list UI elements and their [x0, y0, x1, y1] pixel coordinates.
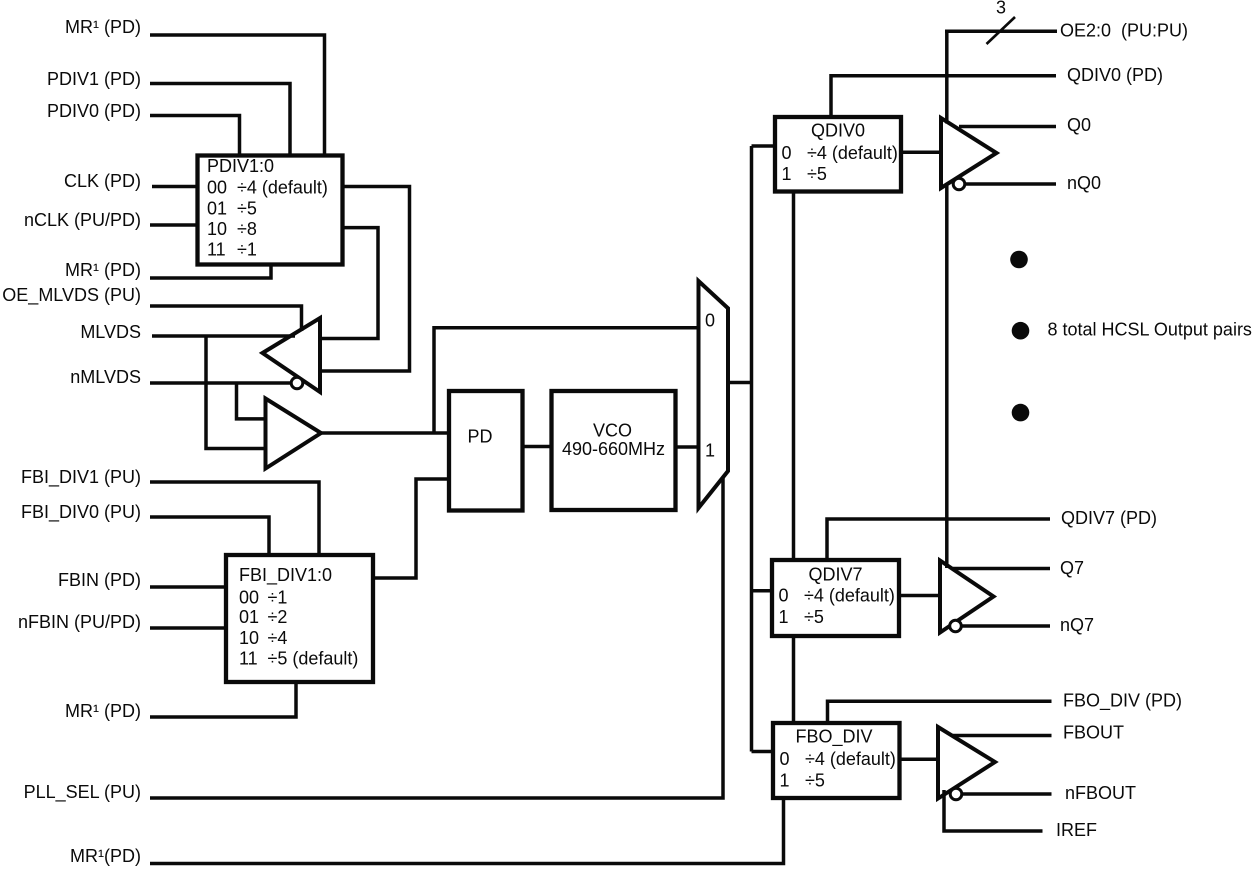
svg-text:QDIV7 (PD): QDIV7 (PD): [1061, 508, 1157, 528]
wire PLL_SEL to mux select: [150, 477, 723, 798]
svg-text:÷5: ÷5: [805, 771, 825, 791]
svg-text:11: 11: [239, 649, 258, 669]
wire QDIV7 control from QDIV7 (PD) pin: [827, 519, 1050, 560]
wire MLVDS branch down to receiver lower input: [206, 336, 267, 449]
bus OE2:0 enable line: [945, 29, 1057, 33]
ellipsis dot 2: [1012, 322, 1030, 340]
svg-text:01: 01: [239, 607, 259, 627]
svg-text:÷5: ÷5: [237, 199, 257, 219]
wire MR1 top to PDIV1:0 box: [150, 35, 325, 157]
svg-text:PDIV1 (PD): PDIV1 (PD): [47, 69, 141, 89]
wire nFBOUT output: [962, 792, 1052, 796]
block VCO box: [552, 391, 676, 510]
wire FBO_DIV output to FBOUT buffer: [900, 758, 939, 762]
wire QDIV0 control from QDIV0 (PD) pin: [831, 76, 1056, 117]
wire VCO to mux input 1: [676, 445, 701, 449]
wire FBO_DIV control from FBO_DIV (PD) pin: [828, 701, 1052, 723]
svg-text:nCLK (PU/PD): nCLK (PU/PD): [24, 210, 141, 230]
wire PD to VCO: [523, 445, 552, 449]
svg-text:FBIN (PD): FBIN (PD): [58, 570, 141, 590]
wire FBOUT output: [952, 734, 1052, 738]
buffer U1 MLVDS output driver (left-pointing): [263, 318, 321, 392]
wire nQ0 output: [965, 182, 1056, 186]
svg-text:01: 01: [207, 199, 227, 219]
svg-text:OE_MLVDS (PU): OE_MLVDS (PU): [2, 285, 141, 306]
wire nMLVDS branch down to receiver upper input: [237, 383, 268, 419]
wire bus to QDIV0 input: [752, 144, 776, 148]
svg-text:MLVDS: MLVDS: [80, 322, 141, 342]
wire MLVDS output: [152, 334, 295, 338]
svg-text:0: 0: [705, 311, 715, 331]
mux PLL bypass selector: [699, 281, 729, 508]
svg-text:10: 10: [207, 219, 227, 239]
wire FBI_DIV1 to FBI_DIV box: [150, 482, 319, 556]
svg-text:Q0: Q0: [1067, 115, 1091, 135]
svg-text:MR¹ (PD): MR¹ (PD): [65, 701, 141, 721]
wire MR1 third to FBI_DIV box bottom: [150, 680, 296, 717]
wire PDIV0 to PDIV1:0 box: [150, 116, 240, 158]
svg-text:MR¹ (PD): MR¹ (PD): [65, 17, 141, 37]
svg-text:FBOUT: FBOUT: [1063, 723, 1124, 743]
svg-text:IREF: IREF: [1056, 820, 1097, 840]
ellipsis dot 1: [1010, 251, 1028, 269]
wire OE_MLVDS to MLVDS driver enable: [150, 306, 302, 331]
svg-text:÷4 (default): ÷4 (default): [805, 749, 896, 769]
svg-text:OE2:0 (PU:PU): OE2:0 (PU:PU): [1060, 21, 1188, 41]
wire PDIV output A to MLVDS driver lower input: [321, 187, 410, 372]
svg-text:÷4: ÷4: [268, 628, 288, 648]
divider QDIV0 box: [775, 117, 901, 192]
wire Q0 output: [959, 125, 1056, 129]
bus vertical distribution line: [750, 146, 754, 752]
wire Q7 output: [953, 567, 1050, 571]
inversion bubble on U5: [950, 788, 962, 800]
svg-text:nQ0: nQ0: [1067, 173, 1101, 193]
divider QDIV7 box: [772, 560, 899, 636]
svg-text:0: 0: [782, 143, 792, 163]
wire QDIV7 output to Q7 buffer: [899, 594, 940, 598]
wire bus to QDIV7 input: [752, 589, 773, 593]
svg-text:PLL_SEL (PU): PLL_SEL (PU): [24, 782, 141, 803]
svg-text:÷5 (default): ÷5 (default): [268, 649, 359, 669]
svg-text:÷4 (default): ÷4 (default): [807, 143, 898, 163]
inversion bubble on U3: [953, 178, 965, 190]
svg-text:PDIV0 (PD): PDIV0 (PD): [47, 101, 141, 121]
svg-text:÷1: ÷1: [268, 587, 288, 607]
wire receiver output to PD: [321, 431, 449, 435]
wire QDIV0 output to Q0 buffer: [901, 151, 941, 155]
svg-text:FBI_DIV1:0: FBI_DIV1:0: [239, 565, 332, 586]
svg-text:490-660MHz: 490-660MHz: [562, 439, 665, 459]
wire CLK to PDIV1:0 box: [152, 185, 199, 189]
svg-text:00: 00: [207, 178, 227, 198]
svg-text:FBI_DIV0 (PU): FBI_DIV0 (PU): [21, 502, 141, 523]
wire PDIV output B to MLVDS driver upper input: [321, 228, 378, 339]
wire FBI_DIV0 to FBI_DIV box: [150, 517, 269, 556]
wire branch up to mux input 0: [434, 328, 700, 433]
wire nFBIN to FBI_DIV box: [150, 626, 228, 630]
svg-text:PDIV1:0: PDIV1:0: [207, 156, 274, 176]
svg-text:11: 11: [207, 239, 226, 259]
divider FBO_DIV box: [773, 723, 900, 798]
wire nMLVDS output: [150, 381, 292, 385]
svg-text:÷5: ÷5: [804, 607, 824, 627]
svg-text:QDIV0: QDIV0: [811, 121, 865, 141]
wire bus to FBO_DIV input: [752, 750, 774, 754]
svg-text:0: 0: [780, 749, 790, 769]
svg-text:nFBIN (PU/PD): nFBIN (PU/PD): [18, 612, 141, 632]
svg-text:Q7: Q7: [1060, 558, 1084, 578]
svg-text:QDIV0 (PD): QDIV0 (PD): [1067, 65, 1163, 85]
svg-text:nMLVDS: nMLVDS: [70, 367, 141, 387]
svg-text:00: 00: [239, 587, 259, 607]
wire IREF stub: [944, 790, 1043, 831]
svg-text:8 total HCSL Output pairs: 8 total HCSL Output pairs: [1048, 320, 1252, 340]
svg-text:÷2: ÷2: [268, 607, 288, 627]
wire PDIV1 to PDIV1:0 box: [150, 84, 290, 158]
svg-text:FBO_DIV (PD): FBO_DIV (PD): [1063, 691, 1182, 712]
wire FBI_DIV output to PD feedback input: [373, 479, 449, 578]
buffer U4 Q7 output driver: [940, 561, 994, 633]
svg-text:÷4 (default): ÷4 (default): [237, 178, 328, 198]
wire mux output to distribution bus: [728, 381, 752, 385]
svg-text:MR¹ (PD): MR¹ (PD): [65, 260, 141, 280]
divider PDIV1:0 box: [198, 156, 343, 265]
svg-text:÷8: ÷8: [237, 219, 257, 239]
bus OE vertical mid segment: [945, 184, 949, 569]
wire MR1 second to PDIV1:0 box bottom: [150, 263, 271, 278]
buffer U3 Q0 output driver: [941, 118, 997, 188]
svg-text:1: 1: [779, 607, 789, 627]
wire nQ7 output: [962, 624, 1051, 628]
wire chain QDIV0 bottom to QDIV7 top: [792, 191, 796, 560]
svg-text:nQ7: nQ7: [1060, 615, 1094, 635]
svg-text:÷4 (default): ÷4 (default): [804, 586, 895, 606]
svg-text:FBI_DIV1 (PU): FBI_DIV1 (PU): [21, 467, 141, 488]
svg-text:10: 10: [239, 628, 259, 648]
svg-text:1: 1: [780, 771, 790, 791]
buffer U2 CLK input receiver (right-pointing): [266, 399, 322, 469]
bus width slash mark: [987, 17, 1016, 44]
wire chain QDIV7 bottom to FBO_DIV top: [792, 636, 796, 723]
svg-text:3: 3: [996, 0, 1006, 18]
wire MR1 bottom to FBO_DIV box bottom: [150, 797, 784, 864]
wire FBIN to FBI_DIV box: [150, 585, 228, 589]
svg-text:MR¹(PD): MR¹(PD): [70, 846, 141, 866]
svg-text:0: 0: [779, 586, 789, 606]
inversion bubble on U4: [950, 620, 962, 632]
block PD phase detector box: [449, 391, 523, 511]
inversion bubble on U1: [291, 377, 303, 389]
svg-text:FBO_DIV: FBO_DIV: [795, 727, 872, 748]
buffer U5 FBOUT output driver: [938, 727, 995, 799]
svg-text:QDIV7: QDIV7: [808, 565, 862, 585]
svg-text:÷5: ÷5: [807, 164, 827, 184]
svg-text:1: 1: [705, 441, 715, 461]
svg-text:1: 1: [782, 164, 792, 184]
bus OE vertical upper segment: [945, 31, 949, 123]
svg-text:VCO: VCO: [593, 421, 632, 441]
wire nCLK to PDIV1:0 box: [150, 223, 199, 227]
svg-text:nFBOUT: nFBOUT: [1065, 783, 1136, 803]
ellipsis dot 3: [1012, 404, 1030, 422]
divider FBI_DIV1:0 box: [226, 555, 373, 682]
svg-text:CLK (PD): CLK (PD): [64, 171, 141, 191]
svg-text:÷1: ÷1: [237, 239, 257, 259]
svg-text:PD: PD: [467, 427, 492, 447]
